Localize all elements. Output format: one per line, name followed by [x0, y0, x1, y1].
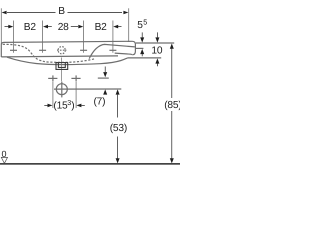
svg-text:28: 28 — [58, 22, 69, 33]
svg-text:B2: B2 — [24, 22, 37, 33]
svg-text:(7): (7) — [93, 96, 105, 107]
svg-text:5: 5 — [143, 17, 147, 26]
svg-text:): ) — [71, 100, 74, 111]
svg-text:(15: (15 — [53, 100, 68, 111]
svg-text:(53): (53) — [110, 123, 127, 134]
svg-text:0: 0 — [1, 149, 6, 159]
svg-text:B: B — [58, 6, 65, 17]
svg-text:(85): (85) — [164, 100, 180, 111]
svg-text:B2: B2 — [95, 22, 108, 33]
svg-text:10: 10 — [151, 46, 162, 57]
